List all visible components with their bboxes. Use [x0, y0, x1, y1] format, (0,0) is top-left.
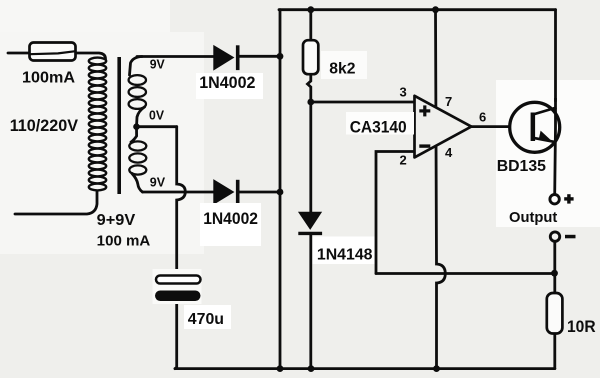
- node bottom rail left: [277, 365, 284, 372]
- capacitor C1 470u top plate: [156, 276, 201, 284]
- svg-text:9+9V: 9+9V: [97, 212, 136, 229]
- wire 0V vertical with hop over 9V wire: [177, 127, 186, 276]
- wire output minus terminal down to 10R: [553, 242, 556, 294]
- wire secondary top exit to center tap: [137, 107, 145, 127]
- node top rail mid: [432, 6, 439, 13]
- wire node A to 1N4148: [309, 102, 312, 213]
- transistor base bar: [531, 113, 536, 142]
- resistor R1 8k2 body: [303, 40, 318, 74]
- wire left vertical rail: [279, 10, 282, 369]
- wire 8k2 to node A with kink: [308, 74, 311, 102]
- wire collector-emitter vertical through circle to output plus: [553, 98, 557, 195]
- wire D2 cathode to left rail: [238, 191, 280, 194]
- transistor emitter line: [533, 138, 556, 142]
- wire top rail: [279, 8, 556, 11]
- diode D3 1N4148: [298, 212, 322, 233]
- node bottom rail mid: [433, 365, 440, 372]
- node center tap 0V: [133, 123, 140, 130]
- svg-text:100 mA: 100 mA: [97, 233, 151, 250]
- wire op-amp pin 2 feedback left: [376, 152, 415, 274]
- terminal output minus: [550, 232, 559, 241]
- op-amp U1 CA3140 triangle: [415, 96, 472, 158]
- svg-text:3: 3: [400, 85, 407, 100]
- wire mains top: [8, 52, 30, 55]
- svg-text:2: 2: [400, 153, 407, 168]
- capacitor C1 470u bottom plate: [155, 291, 201, 302]
- resistor R2 10R body: [547, 293, 563, 334]
- wire 0V tap horizontal: [137, 125, 177, 128]
- wire mid vertical pin7 pin4 with hop over feedback wire: [436, 10, 446, 369]
- svg-text:9V: 9V: [150, 57, 165, 72]
- wire fuse to primary: [76, 53, 106, 59]
- diode D2 1N4002: [214, 180, 238, 205]
- wire capacitor to bottom rail: [175, 301, 177, 369]
- wire op-amp pin 6 to transistor base: [471, 125, 511, 128]
- svg-text:7: 7: [445, 94, 452, 109]
- transformer secondary top 9V winding: [129, 75, 146, 109]
- wire feedback horizontal to output minus node: [376, 272, 555, 275]
- label minus sign output: [565, 235, 576, 239]
- transformer secondary top 9V winding entry: [130, 57, 143, 76]
- white patch right output area: [496, 80, 600, 227]
- transistor emitter arrow: [539, 131, 552, 141]
- svg-text:1N4002: 1N4002: [203, 210, 258, 228]
- label box 1N4148: [313, 237, 375, 265]
- node A 8k2 pin3: [307, 99, 314, 106]
- svg-text:BD135: BD135: [497, 158, 546, 175]
- wire bottom rail: [175, 367, 555, 370]
- transistor Q1 BD135 circle: [510, 102, 560, 152]
- svg-text:6: 6: [479, 110, 486, 125]
- transformer secondary bottom 9V winding: [129, 141, 146, 174]
- op-amp minus input sign: [419, 144, 430, 147]
- svg-text:8k2: 8k2: [329, 61, 355, 78]
- op-amp plus input sign: [419, 105, 430, 116]
- white patch top-left: [0, 0, 170, 40]
- svg-text:9V: 9V: [150, 175, 166, 190]
- node D2 cathode junction: [277, 189, 284, 196]
- wire 1N4148 to bottom rail: [309, 235, 312, 369]
- terminal output plus: [550, 195, 559, 204]
- transistor collector line: [533, 108, 557, 115]
- node output minus junction: [551, 270, 558, 277]
- white patch behind capacitor: [153, 269, 202, 304]
- wire D1 cathode to left rail: [238, 55, 280, 58]
- fuse F1: [30, 43, 76, 61]
- svg-text:Output: Output: [509, 209, 557, 226]
- wire 9V top tap to D1: [137, 55, 214, 58]
- label box CA3140: [346, 112, 414, 135]
- wire 10R to bottom rail: [553, 334, 556, 369]
- wire node A to op-amp pin 3: [311, 101, 415, 104]
- node bottom rail 1N4148: [308, 365, 315, 372]
- svg-text:1N4148: 1N4148: [317, 247, 373, 264]
- transformer T1 primary winding: [89, 58, 106, 191]
- wire mains bottom: [15, 191, 97, 214]
- svg-text:4: 4: [445, 145, 453, 160]
- wire top rail toward transistor: [554, 10, 557, 101]
- wire secondary bottom exit: [132, 174, 143, 193]
- label box 1N4002 bottom: [200, 203, 261, 246]
- label box 1N4002 top: [196, 73, 263, 99]
- wire top rail to 8k2: [309, 10, 312, 41]
- transformer secondary bottom 9V winding entry: [131, 127, 137, 142]
- white patch transformer area: [0, 32, 204, 254]
- svg-text:10R: 10R: [567, 318, 596, 336]
- svg-text:110/220V: 110/220V: [10, 117, 78, 135]
- white patch 8k2 label area: [321, 51, 367, 79]
- label box 470u: [184, 305, 231, 329]
- transformer core: [117, 57, 121, 194]
- svg-text:0V: 0V: [149, 108, 164, 123]
- diode D1 1N4002: [214, 45, 238, 70]
- wire 9V bottom tap to D2: [143, 191, 214, 194]
- node top rail 8k2: [307, 6, 314, 13]
- label plus sign output: [564, 194, 573, 203]
- svg-text:1N4002: 1N4002: [199, 74, 255, 92]
- svg-text:470u: 470u: [188, 311, 224, 328]
- svg-text:100mA: 100mA: [22, 70, 75, 87]
- svg-text:CA3140: CA3140: [350, 119, 407, 137]
- node D1 cathode junction: [277, 53, 284, 60]
